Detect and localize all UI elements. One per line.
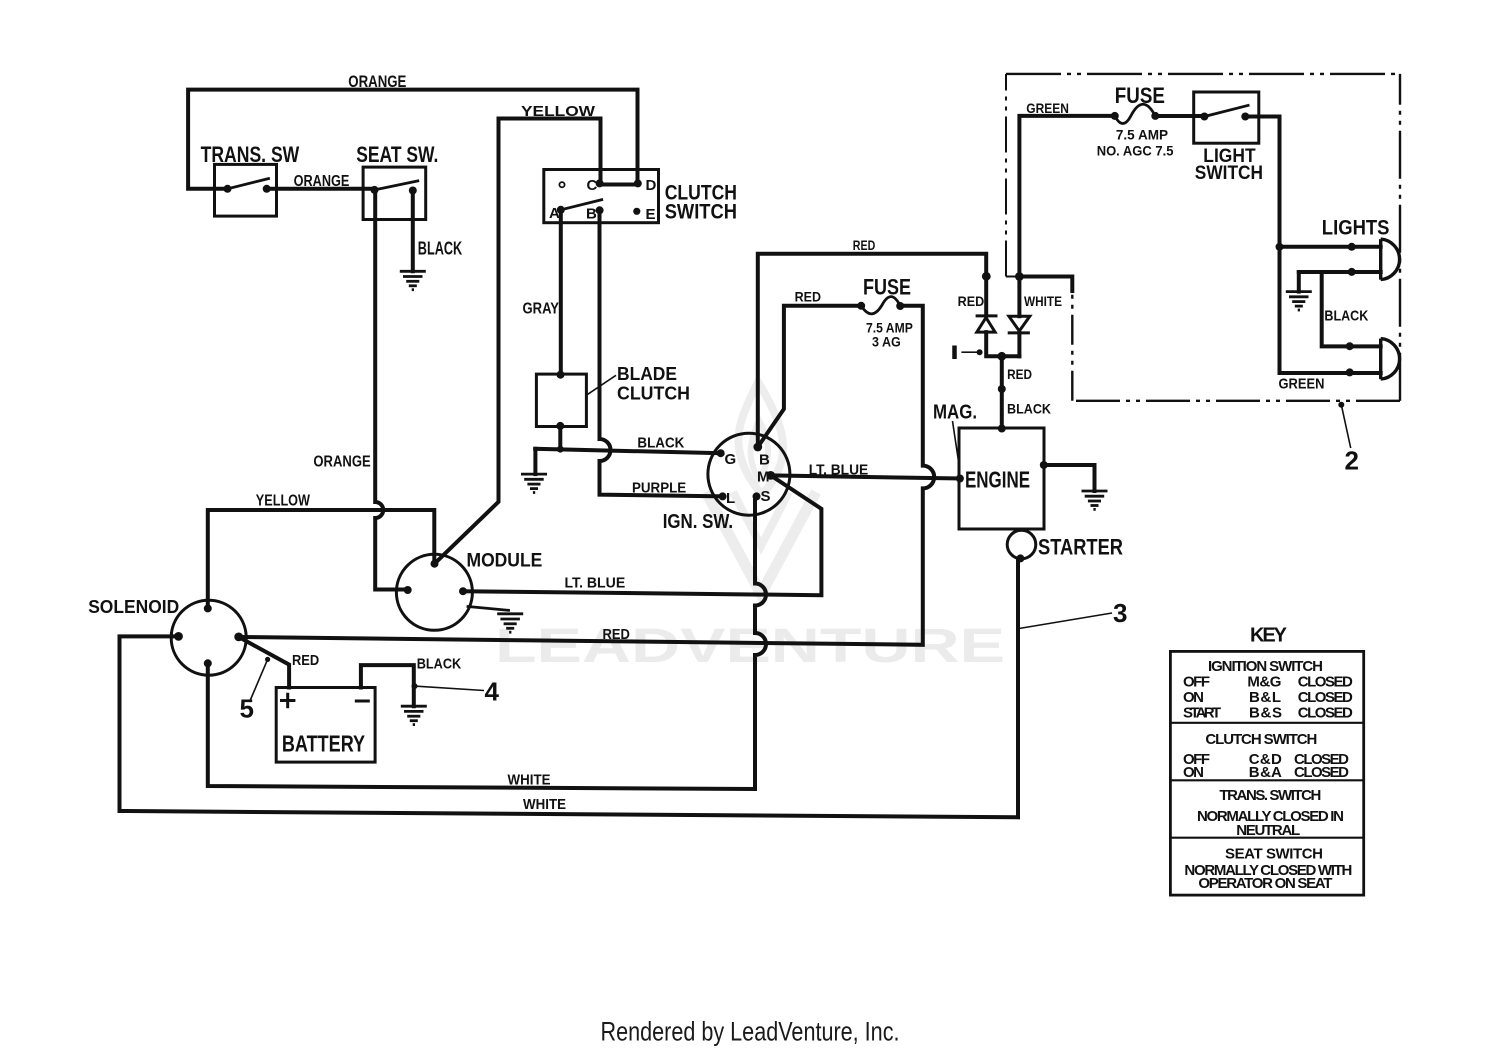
- ground blade clutch: [521, 474, 547, 492]
- svg-text:B & L: B & L: [1249, 689, 1281, 706]
- svg-text:PURPLE: PURPLE: [632, 479, 686, 496]
- fuse F1 squiggle (AGC 7.5): [1115, 104, 1156, 123]
- solenoid circle: [171, 600, 246, 675]
- engine box: [959, 428, 1044, 529]
- wire below diode D2: [1017, 333, 1021, 356]
- svg-text:Rendered by LeadVenture, Inc.: Rendered by LeadVenture, Inc.: [601, 1017, 900, 1047]
- svg-text:FUSE: FUSE: [1115, 83, 1165, 108]
- light 2 lamp: [1381, 339, 1400, 380]
- wire below diode D1: [986, 332, 1019, 356]
- svg-text:ON: ON: [1183, 689, 1204, 706]
- wire: lights junction to light 1: [1280, 245, 1381, 249]
- svg-text:BLACK: BLACK: [418, 239, 462, 259]
- wire lt.blue: module right to ign M (diagonal): [463, 475, 821, 595]
- wire module ground stub: [468, 607, 509, 611]
- svg-text:BLACK: BLACK: [417, 656, 462, 673]
- ground battery: [401, 706, 427, 724]
- svg-text:YELLOW: YELLOW: [256, 493, 311, 510]
- svg-text:GRAY: GRAY: [523, 301, 560, 318]
- leader line 5: [250, 659, 268, 702]
- svg-text:LIGHTS: LIGHTS: [1322, 216, 1390, 239]
- svg-text:ORANGE: ORANGE: [294, 173, 350, 190]
- svg-text:M: M: [757, 469, 770, 486]
- svg-text:RED: RED: [853, 237, 876, 253]
- battery box: [276, 688, 375, 763]
- svg-text:LT. BLUE: LT. BLUE: [809, 462, 868, 479]
- wire white 2: solenoid left to starter (bottom loop): [120, 559, 1019, 818]
- svg-text:ENGINE: ENGINE: [965, 467, 1030, 493]
- solenoid terminals: [204, 604, 212, 612]
- leader line for node 1: [961, 351, 977, 353]
- svg-text:MODULE: MODULE: [467, 551, 543, 572]
- wire: light switch to lights junction: [1245, 117, 1380, 374]
- junction red/black mid: [998, 385, 1006, 393]
- svg-text:LT. BLUE: LT. BLUE: [565, 575, 626, 592]
- key table row ignition switch: [1183, 658, 1353, 722]
- svg-text:E: E: [646, 206, 656, 223]
- leader line 2: [1341, 405, 1350, 448]
- svg-text:ON: ON: [1183, 764, 1204, 781]
- svg-text:2: 2: [1345, 445, 1359, 475]
- phantom border lights circuit left: [1005, 74, 1007, 277]
- wire red: solenoid right to fuse circuit (vertical hops lt.blue): [239, 306, 934, 645]
- ground module: [497, 614, 523, 632]
- trans switch terminals: [224, 185, 232, 193]
- starter circle: [1007, 530, 1036, 559]
- light switch lever: [1204, 105, 1248, 116]
- svg-text:S: S: [761, 488, 771, 505]
- ignition switch terminals: [717, 449, 725, 457]
- wire orange: trans sw to seat sw: [267, 187, 375, 191]
- phantom border lights circuit right: [1399, 74, 1401, 401]
- key table box: [1170, 651, 1363, 895]
- svg-text:NEUTRAL: NEUTRAL: [1236, 822, 1300, 839]
- engine terminals: [998, 425, 1006, 433]
- trans switch box: [215, 164, 277, 216]
- module circle: [396, 554, 472, 630]
- svg-text:BLADE: BLADE: [617, 364, 677, 384]
- svg-text:5: 5: [240, 694, 254, 724]
- wire red/black: diode junction down to engine mag: [1000, 356, 1004, 428]
- wire yellow top: clutch C up over to module top: [435, 119, 601, 564]
- wire green: diode junction up to lights fuse: [1019, 116, 1114, 277]
- svg-text:B & A: B & A: [1249, 764, 1282, 781]
- phantom border lights circuit top: [1006, 73, 1400, 75]
- svg-text:B & S: B & S: [1249, 705, 1282, 722]
- svg-text:ORANGE: ORANGE: [348, 72, 406, 91]
- svg-text:4: 4: [485, 676, 500, 706]
- svg-text:3 AG: 3 AG: [872, 333, 901, 349]
- svg-text:MAG.: MAG.: [933, 402, 977, 424]
- svg-text:B: B: [759, 452, 770, 469]
- svg-text:START: START: [1183, 705, 1221, 722]
- svg-text:ORANGE: ORANGE: [313, 454, 371, 471]
- watermark flame logo: [706, 382, 816, 594]
- wire white 1: solenoid bottom to ign S (hops red and lt.blue): [208, 496, 766, 789]
- svg-text:TRANS. SWITCH: TRANS. SWITCH: [1219, 787, 1321, 804]
- svg-text:SEAT SW.: SEAT SW.: [356, 142, 438, 167]
- svg-text:YELLOW: YELLOW: [521, 103, 596, 120]
- seat switch box: [363, 167, 426, 219]
- phantom border lights circuit bottom-left: [1071, 277, 1073, 401]
- blade clutch pins: [557, 371, 565, 379]
- wire gray: clutch A to blade clutch: [559, 210, 563, 374]
- wire purple: clutch B down to ign L (hops black): [600, 210, 723, 496]
- svg-text:WHITE: WHITE: [1024, 293, 1062, 309]
- svg-text:RED: RED: [1007, 366, 1032, 382]
- svg-text:CLOSED: CLOSED: [1298, 689, 1353, 706]
- svg-text:BLACK: BLACK: [1007, 401, 1051, 417]
- junction diode white top: [1015, 272, 1024, 281]
- svg-text:STARTER: STARTER: [1038, 535, 1123, 560]
- light switch box: [1194, 92, 1259, 143]
- wire yellow bottom: solenoid top to module top: [208, 510, 434, 608]
- svg-text:WHITE: WHITE: [508, 772, 551, 789]
- wire black to ground at blade clutch: [533, 449, 537, 474]
- svg-text:RED: RED: [958, 293, 985, 309]
- ground lights: [1286, 292, 1312, 310]
- seat switch lever: [375, 181, 418, 190]
- wire red: fuse left down diagonal to ign B: [758, 306, 861, 447]
- wire white: diode junction to lights border: [1019, 277, 1072, 292]
- svg-text:KEY: KEY: [1250, 625, 1288, 647]
- blade clutch box: [536, 374, 586, 426]
- svg-text:BATTERY: BATTERY: [282, 731, 365, 757]
- svg-text:B: B: [586, 206, 597, 223]
- wire engine right to ground: [1044, 465, 1095, 491]
- leader line blade clutch: [588, 375, 617, 394]
- svg-text:SEAT SWITCH: SEAT SWITCH: [1225, 846, 1323, 863]
- terminal letters clutch switch: [549, 177, 657, 223]
- svg-text:SOLENOID: SOLENOID: [88, 597, 179, 617]
- fuse F1 terminals: [1111, 112, 1119, 120]
- diode D1 red: symbol: [976, 316, 998, 332]
- wire to lights ground: [1297, 272, 1301, 292]
- svg-text:A: A: [549, 205, 560, 222]
- wire black: light 1 lower to light 2 upper: [1299, 272, 1381, 346]
- phantom border lights circuit bottom: [1072, 400, 1400, 402]
- ground seat switch: [400, 271, 426, 289]
- svg-text:3: 3: [1113, 598, 1127, 628]
- fuse F2 squiggle (3 AG): [861, 297, 900, 314]
- ignition switch circle: [708, 433, 790, 515]
- terminal letters ignition switch: [725, 451, 771, 507]
- svg-text:C: C: [587, 177, 598, 194]
- clutch switch C-D bar: [600, 183, 638, 187]
- starter terminal: [1016, 554, 1024, 562]
- svg-text:WHITE: WHITE: [523, 796, 566, 813]
- battery minus symbol: [355, 700, 370, 703]
- wire red top: ign B up and right to diode: [758, 254, 986, 447]
- light 1 lamp: [1381, 239, 1400, 280]
- trans switch lever: [228, 179, 269, 189]
- wire black: seat sw to ground: [411, 191, 415, 272]
- wire lt.blue: ign M to engine: [771, 475, 960, 478]
- light 2 terminals: [1346, 342, 1354, 350]
- clutch switch small open terminal: [559, 182, 564, 187]
- svg-text:D: D: [646, 177, 657, 194]
- svg-text:CLOSED: CLOSED: [1298, 705, 1353, 722]
- wire black: blade clutch bottom junction to ign G: [535, 449, 721, 453]
- svg-text:SWITCH: SWITCH: [1195, 163, 1263, 184]
- svg-text:BLACK: BLACK: [1324, 308, 1368, 325]
- junction blade clutch / black: [557, 446, 564, 453]
- node I marker numeral 1: [952, 346, 957, 360]
- clutch switch lever A-B: [561, 200, 602, 210]
- diode D2 white: symbol: [1008, 316, 1030, 333]
- leader line mag: [953, 421, 960, 470]
- svg-text:L: L: [726, 490, 735, 507]
- svg-text:G: G: [725, 451, 737, 468]
- svg-text:SWITCH: SWITCH: [665, 201, 737, 224]
- leader line 4: [415, 686, 485, 690]
- clutch switch box: [544, 170, 659, 223]
- light switch terminals: [1200, 113, 1208, 121]
- leader line 3: [1019, 613, 1112, 629]
- svg-text:CLUTCH SWITCH: CLUTCH SWITCH: [1205, 731, 1317, 748]
- svg-text:GREEN: GREEN: [1026, 100, 1069, 116]
- wire orange top: trans sw to clutch D: [188, 90, 637, 189]
- svg-text:LEADVENTURE: LEADVENTURE: [495, 620, 1005, 673]
- light 1 terminals: [1348, 243, 1356, 251]
- ground engine: [1082, 491, 1108, 509]
- svg-text:GREEN: GREEN: [1279, 375, 1325, 392]
- wire red: battery positive from solenoid right: [239, 637, 289, 688]
- svg-text:OPERATOR ON SEAT: OPERATOR ON SEAT: [1198, 875, 1332, 892]
- svg-text:RED: RED: [292, 652, 319, 669]
- svg-text:IGN. SW.: IGN. SW.: [663, 511, 733, 533]
- module terminals: [431, 560, 439, 568]
- wire black: battery negative to ground: [361, 665, 414, 706]
- fuse F2 terminals: [857, 302, 865, 310]
- junction lights top: [1276, 243, 1284, 251]
- svg-text:CLUTCH: CLUTCH: [617, 384, 690, 404]
- wire orange: seat sw down to module left (hops yellow): [375, 191, 408, 590]
- svg-text:7.5 AMP: 7.5 AMP: [1116, 127, 1168, 143]
- junction below diodes: [997, 352, 1006, 361]
- svg-text:RED: RED: [603, 626, 630, 643]
- svg-text:FUSE: FUSE: [863, 275, 911, 300]
- svg-text:CLOSED: CLOSED: [1294, 764, 1349, 781]
- svg-text:TRANS. SW: TRANS. SW: [201, 142, 300, 167]
- key table row seat switch: [1184, 846, 1352, 892]
- key table row clutch switch: [1183, 731, 1349, 781]
- key table row trans switch: [1197, 787, 1344, 839]
- svg-text:NO. AGC 7.5: NO. AGC 7.5: [1097, 143, 1174, 159]
- svg-text:RED: RED: [795, 288, 821, 304]
- svg-text:BLACK: BLACK: [637, 434, 684, 451]
- seat switch terminals: [371, 186, 379, 194]
- wire: fuse F1 to light switch: [1155, 114, 1204, 118]
- wire above diode D2: [1017, 277, 1021, 317]
- battery plus symbol: [280, 693, 295, 708]
- clutch switch terminals: [596, 179, 604, 187]
- junction diode red top: [982, 272, 991, 281]
- wire blade clutch bottom pin: [558, 426, 562, 449]
